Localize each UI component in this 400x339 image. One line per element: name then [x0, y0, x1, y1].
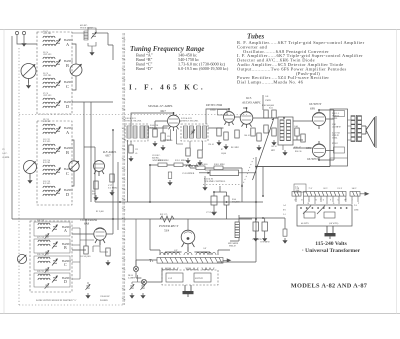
label screen rf	[108, 184, 117, 190]
wire x91 vertical	[90, 102, 92, 202]
grid cap wire detector	[206, 109, 229, 124]
IFT2 winding 1	[184, 126, 188, 138]
IFT1 secondary winding	[133, 126, 137, 138]
tube V2 6A8 converter	[94, 228, 106, 245]
svg-text:COIL: COIL	[332, 138, 338, 140]
svg-text:L26 1.5: L26 1.5	[332, 113, 340, 115]
svg-text:C: C	[66, 171, 69, 176]
svg-text:6H6: 6H6	[210, 108, 216, 112]
ground driver sec	[282, 150, 287, 156]
tube V7 6F6 output bottom	[312, 141, 325, 157]
svg-text:R6 400: R6 400	[167, 140, 172, 142]
ground if bypass	[160, 145, 165, 151]
filter cap a	[253, 218, 259, 236]
label cathode rf	[92, 190, 97, 196]
wire y166 extension left	[256, 166, 330, 168]
converter label	[80, 218, 97, 226]
switch box	[194, 273, 211, 282]
svg-text:B-1: B-1	[283, 210, 286, 212]
svg-text:C47: C47	[203, 248, 206, 250]
svg-text:6K7: 6K7	[161, 109, 167, 113]
plate resistor R11	[272, 110, 276, 118]
svg-text:250,000: 250,000	[232, 202, 240, 204]
ground padder b	[129, 293, 134, 299]
label c40	[244, 135, 250, 137]
resistor R21 zigzag on bus	[160, 216, 174, 222]
trimmer osc band D	[52, 275, 58, 282]
wire volume down	[205, 168, 210, 185]
speaker terminal block a	[334, 111, 345, 117]
ground det bypass	[223, 144, 228, 150]
svg-text:L12 750: L12 750	[332, 133, 341, 135]
tube V6 6F6 output top	[312, 112, 325, 129]
tapped primary segment 2	[304, 192, 347, 197]
plate bus output	[319, 110, 334, 160]
label c36	[208, 144, 214, 146]
resistor R14	[224, 192, 229, 210]
osc coil band B	[38, 240, 50, 246]
r.f. coil band B	[43, 144, 55, 154]
svg-text:R.F. PRI.: R.F. PRI.	[43, 121, 51, 123]
tap labels	[295, 198, 360, 205]
svg-text:L18 C20: L18 C20	[37, 254, 44, 256]
dashed shield box: antenna coils	[37, 32, 72, 114]
components below IFT2: resistor	[186, 148, 190, 156]
wire transformer to switch box	[168, 268, 206, 271]
trimmer r.f. band D	[55, 188, 61, 195]
svg-text:465 KC.: 465 KC.	[80, 25, 88, 27]
label osc coil L17 C19	[37, 237, 44, 239]
svg-text:115-240 Volts: 115-240 Volts	[315, 241, 347, 247]
trimmer C, band A	[55, 38, 61, 45]
svg-text:.05 MFD: .05 MFD	[332, 127, 341, 129]
wire padder pairs	[88, 275, 143, 284]
label line taps left	[283, 204, 286, 216]
volume control arrow	[253, 118, 275, 180]
ground filter caps	[253, 236, 258, 242]
converter cathode wiring	[93, 241, 108, 252]
transformer T1 primary scallops bottom	[162, 268, 214, 270]
svg-text:2ND I.F. TRANS.: 2ND I.F. TRANS.	[181, 120, 199, 123]
svg-text:MODELS A-82 AND A-87: MODELS A-82 AND A-87	[291, 283, 368, 290]
IFT2 winding 4	[203, 126, 207, 138]
screen cap rf	[110, 174, 114, 182]
label r7	[221, 149, 226, 155]
speaker assembly outline	[330, 109, 348, 166]
ground padder c	[140, 293, 145, 299]
svg-text:R2 15,000: R2 15,000	[96, 211, 104, 213]
svg-text:· Universal Transformer: · Universal Transformer	[302, 248, 361, 254]
ground osc cathode	[105, 260, 110, 266]
svg-text:C32: C32	[135, 149, 138, 151]
tuning gang condenser C2 rf left	[24, 161, 37, 179]
avc bus resistor row 3	[196, 166, 205, 170]
osc gang condenser	[17, 254, 26, 263]
trimmer C, band C	[55, 80, 61, 87]
svg-text:6K7: 6K7	[106, 154, 112, 158]
box around 6H6	[218, 110, 228, 116]
svg-text:PLUG: PLUG	[332, 143, 338, 145]
boxed ref label L-1	[294, 184, 306, 192]
svg-text:Band “D”: Band “D”	[136, 66, 153, 71]
gang condenser C2 (ant section right)	[70, 64, 82, 76]
svg-text:MFD: MFD	[271, 150, 276, 152]
grid cap wire i.f. tube	[131, 113, 174, 126]
label c47 2000	[203, 248, 207, 254]
ground screen rf	[109, 190, 114, 196]
svg-text:I. F. 465 KC.: I. F. 465 KC.	[129, 84, 206, 92]
svg-text:2-1: 2-1	[283, 214, 286, 216]
antenna terminal 2	[22, 31, 25, 41]
tube V5 6C5 audio amplifier	[240, 112, 253, 128]
svg-text:5Z4: 5Z4	[164, 229, 170, 233]
svg-text:B: B	[66, 150, 69, 155]
label r8	[231, 147, 240, 149]
svg-text:40 WTS: 40 WTS	[301, 223, 309, 225]
svg-text:T1: T1	[149, 258, 154, 263]
r.f. ampl tube label	[102, 150, 117, 158]
trimmer C, band D	[55, 100, 61, 107]
wire x84 vertical	[83, 102, 85, 219]
tone cap box	[166, 273, 183, 282]
dashed shield box: r.f. coils	[37, 121, 72, 205]
dial lamp 1	[133, 266, 138, 271]
svg-text:Dial Lamps........Mazda No. 46: Dial Lamps........Mazda No. 46	[237, 80, 304, 85]
ground padder a	[85, 293, 90, 299]
trimmer C, band B	[55, 59, 61, 66]
svg-text:R18 1 MEG: R18 1 MEG	[214, 164, 225, 166]
wire tube pins down	[155, 121, 169, 133]
detector load resistor	[217, 128, 221, 136]
label speaker field	[228, 242, 239, 248]
osc output bus	[72, 228, 94, 279]
svg-text:C26 600 KC: C26 600 KC	[100, 296, 111, 298]
svg-text:R.F. PRI.: R.F. PRI.	[43, 162, 51, 164]
output label top	[309, 102, 322, 111]
dashed enclosure bottom	[19, 304, 124, 306]
cathode resistor rf	[94, 181, 98, 189]
label coil L11 C12	[43, 139, 51, 143]
label 5 MFD riser	[265, 96, 271, 102]
r.f. coil band A	[43, 124, 55, 134]
svg-text:R8 2 MEG: R8 2 MEG	[231, 147, 240, 149]
padder coil	[186, 165, 198, 167]
svg-text:C43: C43	[265, 96, 268, 98]
label line taps right	[354, 205, 359, 212]
volume control body box	[199, 170, 256, 176]
resistor R12	[272, 128, 276, 136]
trimmer IFT2	[191, 129, 196, 134]
svg-text:R17 500,000: R17 500,000	[196, 164, 208, 166]
osc coil band C	[38, 257, 50, 263]
svg-text:C9: C9	[2, 149, 4, 151]
wire left edge vertical	[11, 36, 13, 219]
page left edge line	[3, 30, 5, 314]
dashed shield box: osc coils	[30, 221, 72, 292]
label IFT2	[181, 117, 199, 123]
label phase resistors	[294, 126, 302, 149]
wire rf box to gang	[72, 140, 74, 186]
svg-text:6A8: 6A8	[84, 222, 90, 226]
avc bus wires	[150, 165, 242, 202]
svg-text:SWITCH: SWITCH	[195, 278, 203, 280]
arrow right of primary	[360, 192, 369, 195]
wire x95 vertical	[94, 147, 96, 202]
label if cathode	[150, 125, 159, 130]
speaker terminal block b	[334, 147, 345, 153]
shield partition vertical (hatched)	[122, 33, 126, 305]
osc row frame A	[34, 222, 70, 236]
label filter caps	[252, 239, 270, 244]
voltage selector outline	[297, 205, 352, 226]
ground cap right	[282, 238, 287, 244]
antenna coil band A	[43, 36, 55, 46]
label L-1 1000	[296, 187, 300, 192]
driver transformer winding 2	[287, 120, 291, 140]
label left margin avc	[2, 149, 10, 159]
wire field choke	[230, 215, 285, 241]
ground wave trap	[89, 50, 94, 56]
output label bottom	[306, 146, 320, 161]
ground under antenna	[21, 41, 26, 47]
gang condenser rf right	[69, 161, 79, 171]
svg-text:C6 OSC.: C6 OSC.	[152, 155, 161, 157]
wire x127 vertical	[127, 140, 129, 202]
svg-text:B: B	[66, 63, 69, 68]
svg-text:5 MFD: 5 MFD	[265, 100, 271, 102]
label coil L5 C6	[43, 73, 52, 77]
svg-text:R7: R7	[221, 149, 223, 151]
svg-text:R21 3.75: R21 3.75	[160, 214, 167, 216]
svg-text:2000: 2000	[203, 252, 207, 254]
labels cap switch	[168, 277, 203, 280]
svg-text:D: D	[66, 104, 69, 109]
osc coil band D	[38, 274, 50, 280]
label c42	[271, 146, 277, 152]
r.f. coil band D	[43, 186, 55, 196]
label coil L7 C8	[43, 93, 52, 97]
svg-text:L17 C19: L17 C19	[37, 237, 44, 239]
wire horiz y33 top	[96, 32, 108, 34]
i.f. cathode resistor	[153, 129, 157, 137]
ground avc cap	[167, 180, 172, 186]
wire wave trap	[72, 28, 96, 50]
svg-text:600 KC.: 600 KC.	[152, 158, 160, 160]
page top edge line	[0, 29, 400, 31]
power rect label	[158, 224, 179, 233]
padder trimmer pair a	[85, 284, 90, 290]
label IFT1	[125, 117, 142, 123]
label 25 MFD	[206, 212, 217, 214]
ground if cathode	[152, 141, 157, 147]
ground filter cap b	[262, 236, 267, 242]
wire lamp feeder	[135, 219, 137, 266]
ground under gang rf	[27, 178, 32, 184]
gang dotted linkage horizontal	[19, 114, 247, 116]
tapped primary segment 1	[292, 192, 301, 197]
svg-text:C31: C31	[167, 136, 170, 138]
cathode riser x263	[262, 95, 264, 110]
wire driver to output grids	[293, 121, 312, 148]
rectifier cathode riser	[187, 219, 189, 230]
svg-text:OUTPUT: OUTPUT	[307, 157, 320, 161]
gang dashed linkage vertical	[18, 48, 20, 305]
svg-text:R13 & S2: R13 & S2	[204, 179, 214, 181]
svg-text:C36 .05: C36 .05	[208, 144, 214, 146]
r.f. coil band C	[43, 165, 55, 175]
trimmer osc band B	[52, 241, 58, 248]
svg-text:R10 500,000: R10 500,000	[262, 105, 275, 107]
wire horiz y202 bus	[95, 201, 263, 203]
svg-text:F: F	[330, 200, 331, 202]
junction dots	[112, 107, 320, 220]
audio grid resistor	[251, 128, 255, 136]
power plug	[183, 285, 194, 297]
cap below IFT2	[198, 150, 202, 158]
svg-text:6C5: 6C5	[246, 96, 252, 100]
wire box to gang C2	[72, 44, 76, 90]
phase resistor a	[295, 128, 299, 136]
wire osc to converter	[72, 219, 113, 250]
driver transformer winding 1	[280, 120, 284, 140]
tap leads	[296, 196, 358, 204]
svg-text:R15 1 MEG: R15 1 MEG	[175, 160, 186, 162]
svg-text:R20 C45: R20 C45	[295, 151, 302, 153]
i.f. transformer 2 shield box	[181, 124, 208, 141]
band switch label	[36, 299, 77, 302]
ground filter cap	[211, 210, 216, 216]
output transformer winding 1	[351, 116, 355, 141]
tubes list	[237, 40, 365, 85]
svg-text:D: D	[66, 192, 69, 197]
svg-text:C: C	[64, 262, 67, 267]
svg-text:R1 50,000: R1 50,000	[80, 255, 91, 258]
svg-text:L24 C30: L24 C30	[150, 125, 159, 127]
ground det load	[216, 140, 221, 146]
i.f. tube pin wires	[163, 129, 183, 144]
wire long vertical x256	[218, 157, 256, 262]
svg-text:50,000: 50,000	[221, 153, 226, 155]
svg-text:C: C	[66, 84, 69, 89]
selector link boxes	[304, 212, 335, 218]
ground under volume	[202, 185, 207, 191]
label r2	[96, 211, 104, 213]
output transformer core	[355, 115, 358, 142]
avc bus resistor row 4	[214, 166, 223, 170]
svg-text:B: B	[64, 245, 67, 250]
svg-text:150 V: 150 V	[337, 188, 342, 190]
svg-text:C42 .01: C42 .01	[271, 146, 277, 148]
audio ampl label	[241, 96, 261, 105]
page right edge line	[396, 30, 398, 314]
antenna terminal 1	[15, 31, 18, 40]
detector bypass cap	[224, 132, 228, 140]
driver secondary drop	[282, 145, 284, 150]
wire top stub from wave trap	[108, 33, 113, 60]
avc bus resistor row 2	[174, 163, 183, 167]
selector switch arm	[303, 206, 325, 215]
wire output trans to speaker box	[348, 120, 352, 140]
svg-text:COIL: COIL	[332, 118, 338, 120]
i.f. transformer 1 shield box	[125, 124, 148, 141]
wire IFT1 bottom stub	[130, 141, 132, 145]
trimmer r.f. band C	[55, 167, 61, 174]
speaker cone	[362, 116, 376, 148]
IFT2 winding 3	[197, 126, 201, 138]
wire IFT1 to tube	[148, 117, 278, 128]
label padder	[182, 172, 195, 175]
svg-text:.05 MFD: .05 MFD	[2, 157, 10, 159]
svg-text:POWER RECT: POWER RECT	[158, 224, 179, 228]
wire horiz y147	[84, 146, 95, 148]
label R21	[160, 214, 167, 216]
tube V8 5Z4 rectifier	[181, 230, 195, 252]
svg-text:AUDIO AMPL: AUDIO AMPL	[241, 101, 261, 105]
ground below IFT2 b	[197, 160, 202, 166]
ground audio cathode	[256, 145, 261, 151]
cap right of field	[283, 229, 287, 236]
osc cathode components	[106, 248, 110, 256]
svg-text:C47: C47	[174, 250, 177, 252]
coupling cap C40	[264, 125, 268, 133]
svg-text:Output.............Two 6F6 Pow: Output.............Two 6F6 Power Amplifi…	[237, 66, 347, 71]
svg-text:OUTPUT: OUTPUT	[309, 102, 322, 106]
svg-text:C9 8 MFD: C9 8 MFD	[260, 242, 270, 244]
wave trap trimmer	[91, 31, 97, 38]
ground R12	[271, 140, 276, 146]
tube V3 6K7 i.f. amplifier	[168, 112, 180, 131]
svg-text:A: A	[64, 228, 67, 233]
osc coil band A	[38, 223, 50, 229]
page bottom edge line	[0, 313, 400, 315]
mains plug universal	[325, 226, 336, 239]
label R14	[232, 199, 240, 204]
audio cathode resistor	[257, 133, 261, 141]
tone/switch box dashed	[162, 270, 218, 285]
svg-text:6F6: 6F6	[310, 107, 315, 111]
antenna coil band C	[43, 78, 55, 88]
svg-text:R16 2 MEG: R16 2 MEG	[158, 160, 169, 162]
dial lamp 2	[141, 279, 146, 284]
label volume control	[204, 179, 226, 184]
label coil L9 C10	[43, 119, 51, 123]
label watts	[301, 222, 338, 225]
resistor below IFT1	[129, 145, 133, 153]
ground below IFT1	[128, 156, 133, 162]
trimmer r.f. band A	[55, 126, 61, 133]
driver transformer outline	[278, 117, 293, 145]
IFT2 to resistor stubs	[190, 141, 203, 150]
svg-text:240 V: 240 V	[352, 188, 357, 190]
antenna coil band B	[43, 57, 55, 67]
tapped primary segment 3	[350, 192, 360, 197]
tuning gang condenser C1	[21, 64, 36, 84]
padder trimmer pair b	[129, 284, 134, 290]
label below IFT1	[135, 149, 138, 155]
signal i.f. ampl label	[148, 104, 173, 113]
speaker field choke winding	[235, 222, 239, 238]
svg-text:R.F. SEC.: R.F. SEC.	[43, 141, 51, 143]
avc resistor	[235, 130, 239, 138]
osc row frame C	[34, 256, 70, 270]
svg-text:110 V: 110 V	[323, 188, 328, 190]
detector label	[205, 103, 222, 112]
wire caps to bus	[214, 186, 227, 219]
svg-text:FIELD: FIELD	[332, 135, 339, 137]
label coil L13 C14	[43, 160, 51, 164]
svg-text:75 V: 75 V	[309, 188, 313, 190]
antenna coil band D	[43, 98, 55, 108]
